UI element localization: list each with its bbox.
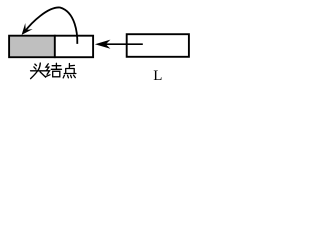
wire: self-loop curved arrow from pointer cell	[25, 7, 78, 43]
head node box	[9, 36, 93, 58]
L pointer box	[127, 34, 189, 57]
svg-text:L: L	[153, 68, 162, 84]
gray data cell	[10, 37, 54, 57]
label 结 (hand-drawn)	[46, 63, 62, 77]
label 头 (hand-drawn)	[31, 63, 46, 79]
background	[0, 0, 202, 95]
arrowhead pointing left at head node	[95, 40, 111, 49]
arrowhead of self-loop pointing at head node top	[22, 23, 33, 35]
wire: arrow shaft from L box to head node	[104, 43, 143, 45]
label 点 (hand-drawn)	[63, 64, 76, 78]
cell divider	[54, 35, 56, 58]
